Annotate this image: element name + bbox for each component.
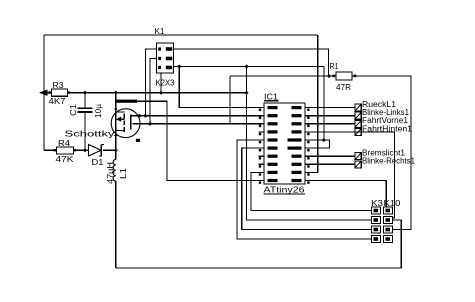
svg-text:D1: D1 xyxy=(92,158,105,167)
net flag FahrtHinten1 xyxy=(355,128,361,135)
resistor R1 xyxy=(336,72,352,80)
wire IC pin11 to K10 pin1 xyxy=(305,181,386,207)
wire IC pin18 to FahrtVorne1 flag xyxy=(305,123,355,125)
wire gate row (IC pin 2) xyxy=(140,115,265,117)
node T1 gate pin xyxy=(137,114,141,118)
wire K1 pin drop to bus xyxy=(160,73,162,93)
wire IC pin19 to Blinke-Links1 flag xyxy=(305,115,355,117)
transistor T1 gate bar xyxy=(130,115,132,130)
resistor R4 stubs xyxy=(54,149,56,151)
wire IC pin5 to K3 pin4 xyxy=(237,140,371,239)
wire R1 feed xyxy=(230,75,336,77)
svg-text:R1: R1 xyxy=(330,62,339,71)
wire IC pin7 stub xyxy=(259,155,265,157)
wire IC pin9 to K3 pin1 xyxy=(251,172,371,210)
connector K1 pins xyxy=(158,47,161,50)
svg-text:IC1: IC1 xyxy=(264,93,279,102)
transistor T1 channel xyxy=(123,114,125,119)
transistor T1 arrow xyxy=(116,117,122,122)
resistor R3 xyxy=(52,89,68,96)
node K1 rail tap xyxy=(177,64,181,68)
svg-text:FahrtHinten1: FahrtHinten1 xyxy=(362,124,413,133)
svg-text:4K7: 4K7 xyxy=(49,97,67,106)
wire R3 row bus xyxy=(68,92,247,94)
connector K3 pins xyxy=(372,207,381,214)
node T1 drain junction xyxy=(114,91,118,95)
node T1 top xyxy=(114,107,118,111)
wire IC pin8 stub xyxy=(259,163,265,165)
transistor T1 gate lead xyxy=(131,115,140,117)
transistor T1 body circle xyxy=(111,109,140,138)
wire IC pin17 to FahrtHinten1 flag and K10 pin2 xyxy=(305,132,394,218)
ic IC1 pin number ticks xyxy=(259,109,261,111)
wire T1 source-drain vertical xyxy=(115,93,117,151)
svg-text:47µH: 47µH xyxy=(106,162,115,184)
node R1 left junction xyxy=(327,74,331,78)
wire K3 pin2 riser xyxy=(247,67,372,221)
node R3 left junction arrow xyxy=(39,90,48,96)
connector K10 pins xyxy=(384,207,393,214)
ic IC1 outline xyxy=(264,103,305,184)
wire K1 pin3 drop xyxy=(150,59,157,124)
wire tap drop to IC pin 1 row xyxy=(179,67,264,108)
wire L1 top lead xyxy=(115,150,117,159)
svg-text:L1: L1 xyxy=(119,167,128,179)
wire L1 bottom lead xyxy=(115,181,117,268)
wire K1 pin1 drop xyxy=(145,49,156,116)
wire R4 to D1 xyxy=(74,149,89,151)
wire R4 row left xyxy=(44,149,57,151)
svg-text:47K: 47K xyxy=(56,155,75,164)
svg-text:47R: 47R xyxy=(336,83,351,92)
resistor R1 stubs xyxy=(333,75,336,78)
node C1-R4 junction xyxy=(83,148,87,152)
wire R3 left stub xyxy=(44,92,52,94)
net flag Blinke-Links1 xyxy=(355,112,361,119)
wire C1 upper lead xyxy=(84,93,86,109)
node C1 top junction xyxy=(83,91,87,95)
svg-text:ATtiny26: ATtiny26 xyxy=(264,186,306,195)
net flag Bremslicht1 xyxy=(355,153,361,160)
net flag Blinke-Rechts1 xyxy=(355,161,361,168)
svg-text:C1: C1 xyxy=(69,103,78,116)
wire IC pin12 to Blinke-Rechts1 flag xyxy=(305,163,355,165)
transistor T1 source link xyxy=(116,111,125,113)
wire top rail drop to IC pin 13 xyxy=(305,35,318,172)
wire R1 right xyxy=(352,76,411,230)
capacitor C1 xyxy=(78,107,93,109)
wire bottom rail riser xyxy=(400,220,402,268)
node IC pin15 junction xyxy=(322,138,326,142)
wire bottom rail xyxy=(116,267,402,269)
diode D1 Schottky xyxy=(89,145,102,157)
node K3 riser tap xyxy=(244,64,248,68)
inductor L1 xyxy=(113,160,116,182)
wire D1 to L1 node xyxy=(103,149,116,151)
wire K1 pin6 rail xyxy=(174,66,325,68)
wire IC pin6 to K3 pin3 xyxy=(242,148,372,229)
node K1 bottom junction xyxy=(159,91,163,95)
label T1 mark xyxy=(136,139,140,142)
node bus end junction xyxy=(244,91,248,95)
wire K1 rail drop to IC pin1 xyxy=(323,67,325,141)
node gate row junction xyxy=(143,114,147,118)
wire left rail xyxy=(43,35,45,150)
transistor T1 drain bar xyxy=(116,100,137,103)
net flag FahrtVorne1 xyxy=(355,120,361,127)
wire R1 feed drop to gate row xyxy=(229,76,231,124)
wire bulk row (IC pin 3) xyxy=(133,123,265,125)
resistor R4 xyxy=(57,147,74,154)
resistor R3 stubs xyxy=(49,91,51,93)
svg-text:Blinke-Rechts1: Blinke-Rechts1 xyxy=(362,157,416,166)
connector K1 outline xyxy=(157,43,174,73)
wire C1 lower lead xyxy=(84,112,86,151)
wire riser to K10 pin 2 xyxy=(393,219,402,221)
wire IC pin10 to T1 drain bar xyxy=(137,101,264,180)
wire K1 pin2 to R1 node xyxy=(174,49,329,76)
node D1-L1 junction xyxy=(114,148,118,152)
svg-text:K2X3: K2X3 xyxy=(156,79,176,88)
wire IC pin15 jog xyxy=(305,140,329,148)
wire top rail xyxy=(44,34,318,36)
svg-text:R4: R4 xyxy=(58,139,71,148)
wire IC pin20 to RueckL1 flag xyxy=(305,107,355,109)
net flag RueckL1 xyxy=(355,104,361,111)
svg-text:10µ: 10µ xyxy=(94,104,103,118)
svg-text:R3: R3 xyxy=(53,81,65,90)
svg-text:K1: K1 xyxy=(155,27,166,36)
ic IC1 pin name blocks xyxy=(268,106,278,109)
wire IC pin13 stub xyxy=(305,155,355,157)
svg-text:Schottky: Schottky xyxy=(65,130,115,139)
node bulk row junction xyxy=(148,122,152,126)
node T1 bottom xyxy=(114,134,118,138)
wire IC pin4 stub xyxy=(259,131,265,133)
